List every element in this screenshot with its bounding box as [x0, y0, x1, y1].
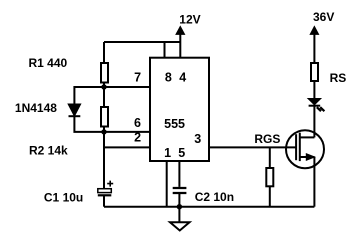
transistor Q1 channel bar	[299, 133, 301, 161]
svg-text:3: 3	[194, 132, 201, 146]
capacitor C1 plus sign	[107, 181, 113, 187]
svg-text:7: 7	[134, 71, 141, 85]
svg-text:C1 10u: C1 10u	[44, 191, 83, 205]
LED D2	[309, 99, 321, 105]
transistor Q1 source lead	[300, 156, 315, 158]
resistor R1	[101, 63, 108, 83]
wire pin 5 stub	[178, 161, 180, 187]
svg-text:RGS: RGS	[254, 132, 280, 146]
wire pin 2	[104, 146, 150, 148]
wire 12V top rail	[104, 41, 180, 43]
resistor R2	[101, 107, 108, 127]
wire pin 3	[209, 146, 296, 148]
svg-text:555: 555	[164, 117, 185, 131]
wire ground rail	[104, 206, 314, 208]
svg-text:12V: 12V	[179, 13, 200, 27]
wire pin 6	[104, 131, 150, 133]
wire MOSFET source to rail	[313, 157, 315, 207]
capacitor C1	[98, 189, 112, 193]
LED emission arrows	[317, 107, 325, 111]
svg-text:8: 8	[165, 70, 172, 84]
diode D1 1N4148	[69, 104, 81, 115]
wire to C1	[103, 132, 105, 189]
wire C1 bottom lead	[103, 196, 105, 207]
wire pin 1 stub	[166, 161, 168, 207]
svg-text:1: 1	[164, 146, 171, 160]
transistor Q1 source arrow	[306, 154, 314, 161]
svg-text:5: 5	[178, 146, 185, 160]
wire R2 bottom lead	[103, 127, 105, 132]
wire RS to LED	[313, 81, 315, 99]
wire C2 bottom lead	[178, 194, 180, 207]
wire diode bottom branch	[74, 116, 104, 132]
junction node R1/R2/D1/pin7	[101, 84, 106, 89]
svg-text:C2 10n: C2 10n	[195, 190, 234, 204]
svg-text:R2 14k: R2 14k	[29, 143, 68, 157]
resistor RS	[311, 63, 318, 81]
wire pin 8 stub	[164, 42, 166, 58]
power 36V arrow	[310, 26, 318, 34]
transistor Q1 gate bar	[295, 134, 297, 160]
svg-text:2: 2	[134, 131, 141, 145]
wire pin 4 stub / 12V stem	[179, 33, 181, 58]
junction node R2/D1/pin6	[101, 129, 106, 134]
wire R2 top lead	[103, 87, 105, 107]
wire diode top branch	[74, 87, 104, 105]
power 12V arrow	[176, 26, 185, 34]
svg-text:4: 4	[179, 70, 186, 84]
wire RGS bottom lead	[269, 186, 271, 206]
wire R1 bottom lead	[103, 83, 105, 88]
wire LED to MOSFET drain	[313, 106, 315, 138]
wire R1 top lead	[103, 42, 105, 63]
junction node C2/ground	[177, 204, 182, 209]
wire RGS top lead	[269, 147, 271, 168]
svg-text:6: 6	[134, 116, 141, 130]
svg-text:36V: 36V	[313, 10, 334, 24]
ground symbol	[170, 207, 190, 231]
wire 36V stem	[313, 34, 315, 63]
svg-text:1N4148: 1N4148	[15, 101, 57, 115]
svg-text:RS: RS	[330, 71, 347, 85]
svg-text:R1 440: R1 440	[29, 56, 68, 70]
op-amp / IC U1 555 outline	[150, 58, 209, 161]
wire pin 7	[104, 86, 150, 88]
transistor Q1 MOSFET body	[286, 130, 324, 168]
resistor RGS	[266, 168, 273, 186]
transistor Q1 drain lead	[300, 136, 315, 138]
capacitor C2	[173, 188, 187, 193]
